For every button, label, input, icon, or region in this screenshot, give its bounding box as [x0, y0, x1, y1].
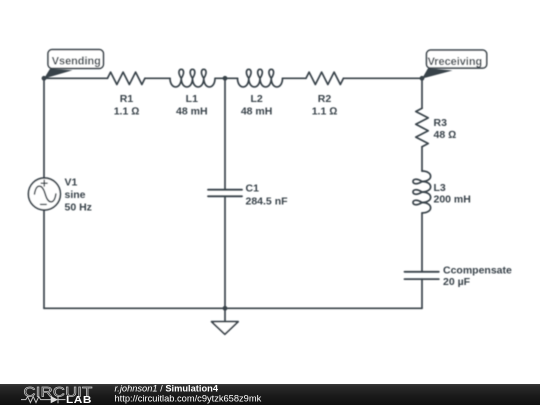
svg-text:http://circuitlab.com/c9ytzk65: http://circuitlab.com/c9ytzk658z9mk: [115, 394, 262, 404]
svg-text:50 Hz: 50 Hz: [65, 202, 92, 214]
svg-text:R2: R2: [318, 93, 332, 105]
svg-text:LAB: LAB: [66, 395, 92, 405]
svg-text:r.johnson1 / Simulation4: r.johnson1 / Simulation4: [115, 384, 219, 394]
svg-text:1.1 Ω: 1.1 Ω: [312, 106, 338, 118]
svg-text:200 mH: 200 mH: [434, 194, 471, 206]
svg-text:Ccompensate: Ccompensate: [443, 264, 512, 276]
svg-text:sine: sine: [65, 189, 86, 201]
svg-text:V1: V1: [65, 177, 78, 189]
svg-text:48 mH: 48 mH: [241, 106, 273, 118]
svg-text:L1: L1: [186, 93, 198, 105]
svg-text:C1: C1: [246, 183, 260, 195]
svg-text:L3: L3: [434, 182, 446, 194]
svg-text:L2: L2: [250, 93, 262, 105]
svg-text:Vsending: Vsending: [52, 56, 101, 68]
svg-text:284.5 nF: 284.5 nF: [246, 196, 289, 208]
svg-text:20 µF: 20 µF: [443, 276, 471, 288]
svg-text:Vreceiving: Vreceiving: [428, 56, 483, 68]
svg-text:48 Ω: 48 Ω: [434, 129, 457, 141]
svg-text:R1: R1: [120, 93, 134, 105]
svg-text:48 mH: 48 mH: [176, 106, 208, 118]
svg-text:1.1 Ω: 1.1 Ω: [114, 106, 140, 118]
svg-text:R3: R3: [434, 117, 448, 129]
